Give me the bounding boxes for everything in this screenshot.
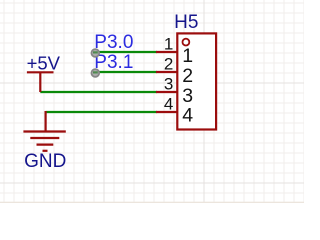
- wire net GND to pin 4: [46, 111, 157, 113]
- node dot on net P3.1: [91, 69, 99, 77]
- svg-text:4: 4: [164, 94, 173, 113]
- connector H5 body: [177, 33, 216, 129]
- major grid line vertical x=204: [204, 0, 205, 203]
- pin 3: [156, 91, 177, 93]
- pin 2: [156, 71, 177, 73]
- svg-text:4: 4: [182, 105, 193, 127]
- power port GND: [23, 111, 65, 151]
- svg-text:H5: H5: [174, 12, 198, 33]
- node dot on net P3.0: [91, 49, 99, 57]
- wire net P3.0 to pin 1: [95, 51, 157, 53]
- svg-text:1: 1: [182, 45, 193, 67]
- major grid line horizontal y=183: [0, 183, 304, 184]
- pin 4: [156, 111, 177, 113]
- svg-text:3: 3: [164, 74, 173, 93]
- svg-text:P3.1: P3.1: [94, 52, 133, 73]
- major grid line horizontal y=83: [0, 83, 304, 84]
- pin 1 orientation circle: [183, 39, 190, 46]
- wire net P3.1 to pin 2: [95, 71, 157, 73]
- svg-text:2: 2: [182, 65, 193, 87]
- svg-text:GND: GND: [24, 151, 66, 172]
- svg-text:+5V: +5V: [27, 52, 61, 73]
- svg-text:1: 1: [164, 34, 173, 53]
- svg-text:P3.0: P3.0: [94, 32, 133, 53]
- major grid line vertical x=104: [104, 0, 105, 203]
- wire net +5V to pin 3: [40, 91, 157, 93]
- svg-text:2: 2: [164, 54, 173, 73]
- power port +5V: [27, 72, 54, 92]
- pin 1: [156, 51, 177, 53]
- screenshot bottom edge line: [0, 202, 304, 203]
